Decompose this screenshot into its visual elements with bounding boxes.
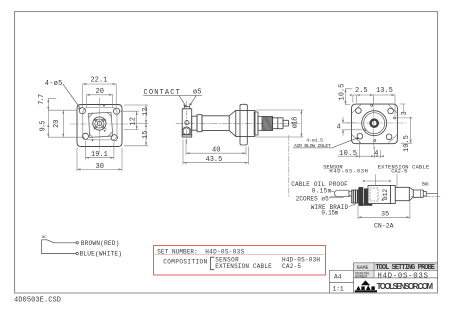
flange ring bbox=[240, 104, 247, 145]
connector body bbox=[368, 185, 391, 203]
svg-text:ø18: ø18 bbox=[291, 117, 299, 129]
svg-text:A4: A4 bbox=[334, 274, 342, 281]
dark clamp block bbox=[359, 187, 363, 205]
svg-text:NAME: NAME bbox=[357, 265, 369, 271]
coupler bbox=[395, 187, 409, 200]
svg-text:TOOL SETTING PROBE: TOOL SETTING PROBE bbox=[375, 264, 435, 272]
svg-text:10.5: 10.5 bbox=[403, 135, 411, 152]
cone bbox=[409, 187, 413, 200]
stylus ball circle inner bbox=[183, 128, 190, 135]
svg-text:0.15m: 0.15m bbox=[321, 209, 338, 216]
svg-text:CA2-5: CA2-5 bbox=[282, 263, 301, 270]
composition bracket bbox=[210, 257, 214, 270]
centerline vertical bbox=[373, 98, 375, 151]
title block: DRAWING NUMBER bbox=[354, 271, 374, 278]
holder bottom band bbox=[182, 135, 192, 138]
svg-text:2.5: 2.5 bbox=[355, 87, 368, 95]
svg-text:4-ø5: 4-ø5 bbox=[45, 80, 63, 88]
svg-text:5m: 5m bbox=[422, 180, 429, 187]
svg-text:ø5: ø5 bbox=[193, 89, 201, 97]
center bore bbox=[371, 120, 378, 127]
collar bbox=[197, 115, 202, 132]
cable end cap bbox=[335, 190, 349, 197]
inner dashed rect bbox=[370, 188, 378, 201]
cable sleeve bbox=[349, 191, 353, 196]
neck bbox=[192, 116, 197, 130]
red set-number box bbox=[154, 246, 326, 276]
svg-text:CONTACT: CONTACT bbox=[144, 89, 180, 97]
small screw circles bbox=[95, 119, 97, 121]
title block: TOOL SETTING PROBE bbox=[375, 263, 438, 270]
ink arrow inner right bbox=[104, 130, 107, 132]
svg-text:BLUE(WHITE): BLUE(WHITE) bbox=[80, 251, 123, 258]
corner hole BL bbox=[357, 133, 363, 139]
small air hole bottom bbox=[374, 139, 376, 141]
svg-text:CN-2A: CN-2A bbox=[374, 223, 394, 230]
svg-text:2CORES ø5: 2CORES ø5 bbox=[296, 195, 329, 202]
contact tip cap bbox=[184, 107, 190, 109]
corner hole BR bbox=[386, 134, 392, 140]
flange square bbox=[352, 104, 398, 144]
svg-text:ø12: ø12 bbox=[382, 189, 389, 200]
svg-text:1:1: 1:1 bbox=[333, 285, 344, 292]
svg-text:4D0503E.CSD: 4D0503E.CSD bbox=[14, 297, 61, 305]
svg-text:H4D-0S-03S: H4D-0S-03S bbox=[377, 272, 428, 280]
contact vertical centerline bbox=[186, 101, 188, 145]
logo base bar bbox=[355, 290, 377, 292]
small hole in holder bbox=[185, 121, 189, 125]
top small dim arrows bbox=[366, 175, 387, 187]
stylus ball circle outer bbox=[182, 127, 191, 136]
svg-text:BROWN(RED): BROWN(RED) bbox=[81, 240, 120, 247]
hole bottom-left bbox=[82, 133, 88, 139]
svg-text:4: 4 bbox=[374, 150, 378, 158]
end ring bbox=[254, 112, 258, 135]
svg-text:TOOLSENSOR.COM: TOOLSENSOR.COM bbox=[377, 282, 434, 291]
svg-text:9.5: 9.5 bbox=[40, 121, 48, 132]
ink arrow top edge bbox=[103, 104, 105, 107]
centerline horizontal bbox=[345, 122, 406, 124]
leader 4-ø1.5 from BL hole bbox=[333, 138, 359, 148]
tail cable bbox=[426, 193, 437, 195]
separator ring bbox=[391, 185, 396, 203]
projection dash line down bbox=[288, 135, 290, 197]
corner chamfer lines bbox=[352, 104, 397, 143]
contact leader bbox=[179, 96, 186, 106]
plug tip bbox=[423, 191, 426, 196]
step cylinder bbox=[273, 118, 284, 129]
contact holder body bbox=[182, 109, 192, 137]
centerline horizontal bbox=[70, 123, 128, 125]
svg-text:0.15m: 0.15m bbox=[312, 188, 332, 195]
clamp foot bbox=[364, 197, 373, 206]
center circles bbox=[93, 117, 106, 130]
svg-text:13.5: 13.5 bbox=[376, 87, 393, 95]
svg-text:NUMBER: NUMBER bbox=[355, 275, 367, 279]
wiring: switch + leads bbox=[42, 240, 79, 255]
svg-text:3: 3 bbox=[401, 111, 409, 115]
svg-text:H4D-0S-03H: H4D-0S-03H bbox=[329, 169, 368, 175]
centerline vertical bbox=[98, 98, 100, 153]
svg-text:10.5: 10.5 bbox=[339, 150, 357, 158]
inner probe outline square bbox=[89, 112, 113, 137]
corner hole TR bbox=[388, 108, 394, 114]
center pin bbox=[370, 119, 379, 128]
small air hole right bbox=[394, 117, 396, 119]
svg-text:22.1: 22.1 bbox=[91, 77, 108, 85]
svg-text:20: 20 bbox=[53, 120, 61, 129]
title block: NAME cell bbox=[354, 263, 374, 270]
conical flare bbox=[229, 110, 236, 136]
logo letters blobs bbox=[356, 285, 375, 290]
svg-text:4: 4 bbox=[337, 124, 341, 132]
plug bbox=[413, 190, 423, 197]
svg-text:NC: NC bbox=[42, 236, 47, 240]
hole bottom-right bbox=[111, 135, 117, 141]
svg-text:12: 12 bbox=[130, 117, 138, 125]
corner hole TL bbox=[356, 108, 362, 114]
hole top-right bbox=[114, 108, 120, 114]
svg-text:CA2-5: CA2-5 bbox=[391, 169, 407, 175]
flange body square bbox=[77, 105, 122, 147]
inner boss outline bbox=[83, 107, 117, 139]
main body bbox=[236, 110, 255, 136]
svg-text:H4D-0S-03S: H4D-0S-03S bbox=[205, 248, 244, 255]
horizontal centerline bbox=[176, 122, 300, 124]
centerline bbox=[330, 195, 440, 197]
threaded section bbox=[258, 117, 273, 131]
title block bbox=[329, 263, 437, 293]
big outer circle bbox=[362, 111, 387, 136]
svg-text:7.7: 7.7 bbox=[38, 94, 46, 105]
leader to top-left hole bbox=[63, 84, 81, 109]
ink arrow bottom bbox=[92, 139, 94, 141]
svg-text:COMPOSITION: COMPOSITION bbox=[163, 258, 207, 265]
long cylinder bbox=[202, 116, 229, 131]
svg-text:EXTENSION CABLE: EXTENSION CABLE bbox=[215, 263, 272, 270]
small air hole top bbox=[371, 104, 373, 106]
CA2-5 leader bbox=[396, 174, 398, 187]
hole top-left bbox=[79, 108, 85, 114]
inner corner arcs bbox=[89, 113, 112, 138]
rear tip bbox=[283, 120, 288, 126]
svg-text:19.1: 19.1 bbox=[91, 151, 108, 159]
wire braid section bbox=[352, 190, 359, 203]
small air hole left-low bbox=[364, 129, 366, 131]
second circle bbox=[364, 113, 385, 134]
logo mountain peak bbox=[361, 280, 370, 285]
svg-text:SET NUMBER:: SET NUMBER: bbox=[157, 248, 198, 255]
svg-text:4-ø1.5: 4-ø1.5 bbox=[306, 137, 323, 143]
thread hatch bbox=[262, 117, 272, 131]
